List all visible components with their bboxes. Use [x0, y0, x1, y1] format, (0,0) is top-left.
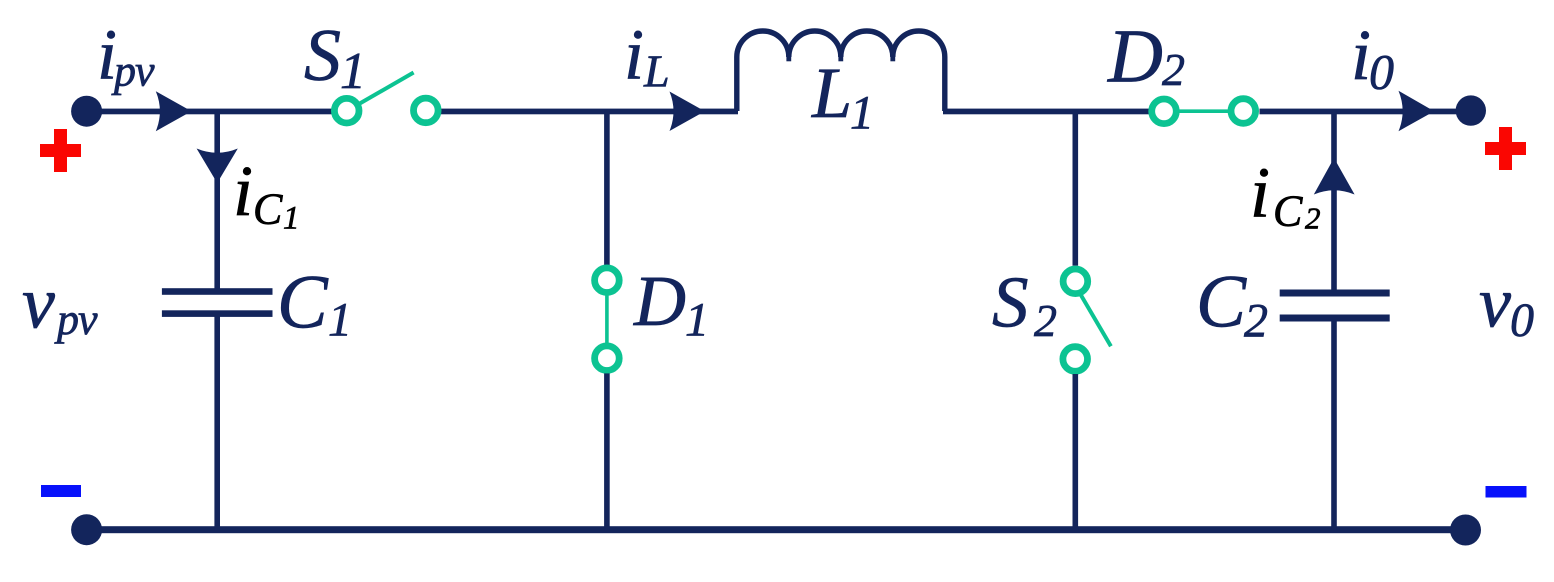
blue minus left	[41, 485, 81, 497]
svg-text:v: v	[22, 263, 55, 345]
wire D1 branch upper	[604, 111, 610, 265]
label S2	[992, 262, 1057, 347]
capacitor C1 top plate	[162, 288, 273, 295]
inductor L1 coil junction stub 1	[786, 46, 791, 61]
svg-text:i: i	[624, 15, 644, 95]
wire C1 branch upper	[214, 111, 220, 289]
label D1	[633, 261, 709, 347]
capacitor C2 bottom plate	[1280, 315, 1390, 322]
svg-text:S: S	[992, 262, 1029, 343]
diode switch D1 (closed)	[595, 268, 620, 371]
svg-text:0: 0	[1510, 294, 1534, 347]
svg-text:D: D	[1107, 15, 1163, 99]
label i_C2 (black)	[1250, 153, 1321, 236]
svg-text:L: L	[811, 53, 852, 133]
svg-text:1: 1	[850, 87, 874, 140]
svg-text:C: C	[1196, 261, 1247, 344]
arrow ipv current arrow	[156, 91, 192, 131]
wire S1 to inductor	[441, 109, 738, 115]
svg-text:2: 2	[1034, 295, 1057, 346]
wire S2 branch lower	[1073, 374, 1079, 530]
node output terminal dot	[1456, 95, 1486, 125]
label D2	[1107, 15, 1185, 99]
label S1	[304, 15, 366, 100]
svg-text:i: i	[1351, 15, 1371, 95]
arrow iC1 current arrow (down)	[197, 149, 238, 184]
svg-text:1: 1	[283, 201, 300, 237]
svg-text:2: 2	[1162, 44, 1185, 95]
svg-text:2: 2	[1244, 295, 1268, 348]
wire C2 branch lower	[1331, 322, 1337, 531]
inductor L1 coil junction stub 2	[838, 46, 843, 61]
label v_0	[1479, 263, 1534, 348]
label v_pv	[22, 263, 98, 345]
wire D2 to output dot	[1260, 109, 1471, 115]
inductor L1	[737, 31, 945, 111]
red plus right	[1485, 127, 1526, 170]
svg-text:i: i	[233, 151, 253, 231]
arrow iC2 current arrow (up)	[1314, 158, 1355, 195]
label C2	[1196, 261, 1268, 348]
wire C2 branch upper	[1331, 111, 1337, 290]
blue minus right	[1486, 486, 1527, 498]
wire inductor to D2	[943, 109, 1149, 115]
label i_pv	[97, 15, 155, 96]
label C1	[277, 261, 352, 347]
wire S2 branch upper	[1073, 111, 1079, 266]
capacitor C1 bottom plate	[162, 310, 273, 317]
svg-text:0: 0	[1369, 44, 1394, 100]
svg-text:pv: pv	[111, 47, 155, 96]
svg-text:v: v	[1479, 263, 1511, 343]
inductor L1 coil junction stub 3	[890, 46, 895, 61]
arrow iL current arrow	[670, 92, 705, 132]
label L1	[811, 53, 874, 140]
capacitor C2 top plate	[1280, 290, 1390, 297]
node bottom-left terminal dot	[71, 514, 102, 545]
svg-text:1: 1	[340, 43, 366, 100]
wire D1 branch lower	[604, 373, 610, 530]
svg-text:C: C	[253, 185, 283, 234]
label i_0	[1351, 15, 1394, 100]
wire C1 branch lower	[214, 316, 220, 530]
wire top rail segment dot to switch S1	[86, 109, 332, 115]
bottom rail wire	[86, 526, 1466, 533]
svg-text:1: 1	[685, 294, 709, 347]
node bottom-right terminal dot	[1450, 515, 1481, 546]
svg-text:L: L	[643, 46, 670, 97]
svg-text:S: S	[304, 15, 341, 97]
switch S2 (open)	[1063, 269, 1111, 371]
label i_C1 (black)	[233, 151, 300, 237]
diode switch D2 (closed)	[1152, 99, 1256, 124]
svg-text:C: C	[277, 261, 329, 345]
switch S1 (open)	[334, 73, 438, 123]
svg-text:i: i	[1250, 153, 1270, 233]
red plus left	[40, 129, 81, 172]
svg-text:C: C	[1273, 187, 1303, 236]
arrow i0 current arrow	[1399, 91, 1435, 131]
svg-text:D: D	[633, 261, 686, 341]
svg-text:pv: pv	[54, 295, 98, 344]
svg-text:1: 1	[328, 294, 352, 347]
node input terminal dot	[71, 96, 102, 127]
label i_L	[624, 15, 670, 97]
svg-text:2: 2	[1305, 201, 1321, 236]
